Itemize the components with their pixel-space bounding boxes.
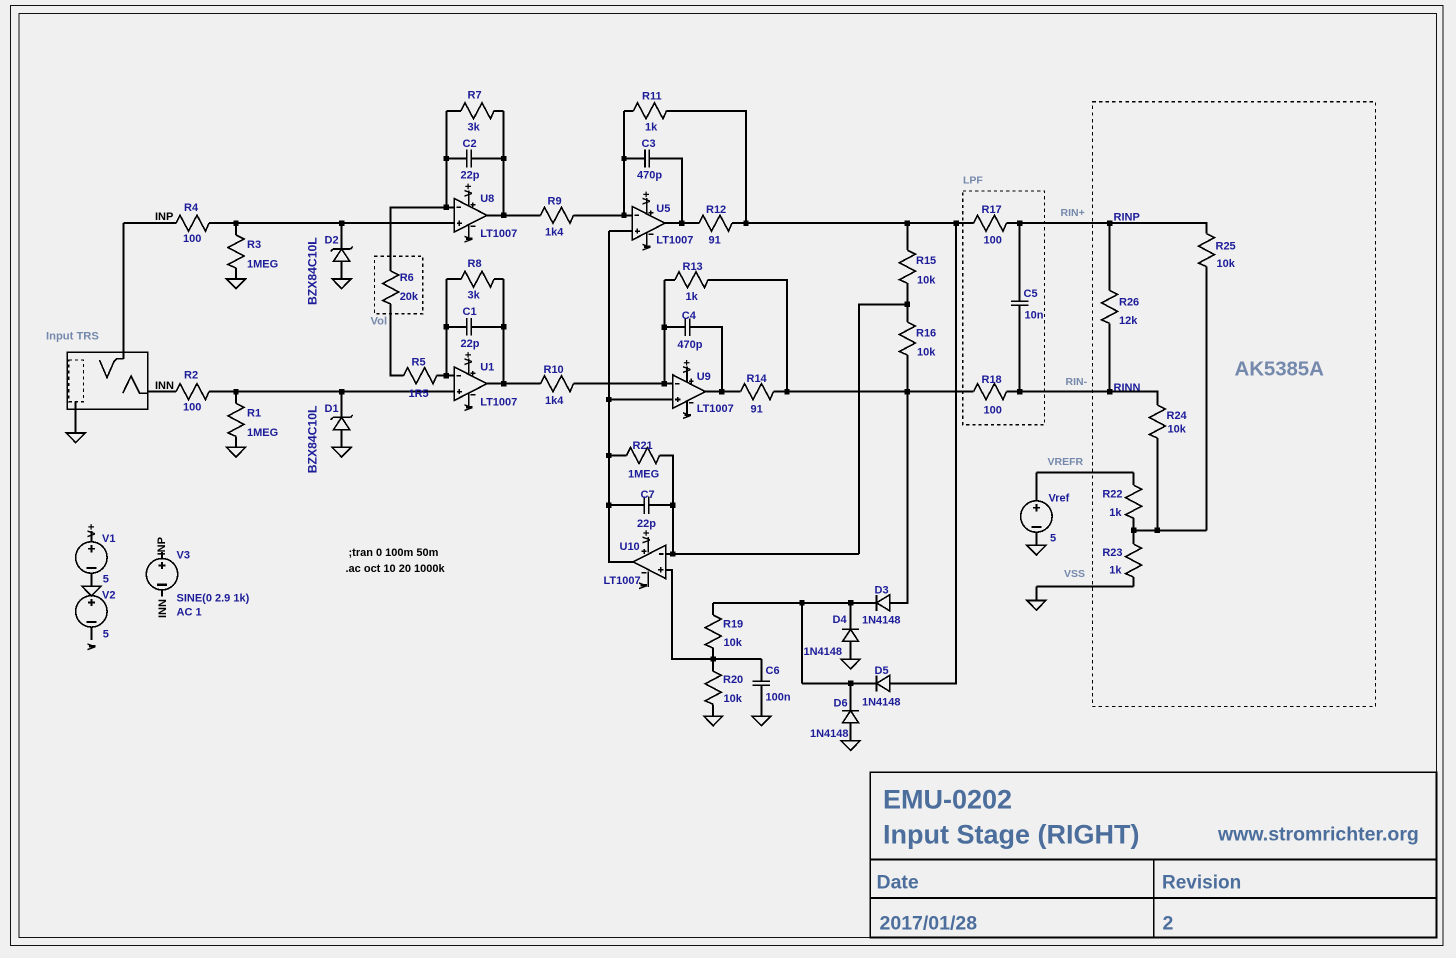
junction R3 node on INP <box>233 221 238 226</box>
resistor R26 <box>1102 290 1118 323</box>
svg-text:VSS: VSS <box>1064 568 1085 580</box>
junction D6 node <box>848 681 853 686</box>
wire C5 bottom lead <box>1019 305 1021 392</box>
capacitor C3 <box>645 150 649 168</box>
wire R22 bottom lead <box>1133 518 1135 544</box>
ground under Vref <box>1027 545 1046 555</box>
svg-text:3k: 3k <box>468 121 481 133</box>
power label V+ (U1) <box>463 352 475 366</box>
wire R8 left lead <box>446 278 461 280</box>
svg-text:Input Stage (RIGHT): Input Stage (RIGHT) <box>883 819 1139 849</box>
svg-text:R17: R17 <box>982 204 1002 216</box>
resistor R19 <box>705 615 721 648</box>
svg-text:10k: 10k <box>917 275 936 287</box>
dashed box LPF <box>963 191 1045 425</box>
svg-text:D2: D2 <box>325 234 339 246</box>
value LT1007 (U1) <box>480 396 517 408</box>
value 10n (C5) <box>1025 310 1044 322</box>
svg-text:RIN-: RIN- <box>1066 376 1088 388</box>
label R25 <box>1216 240 1236 252</box>
junction C7 right <box>670 502 675 507</box>
svg-text:22p: 22p <box>637 518 656 530</box>
wire C6 bottom lead <box>760 685 762 716</box>
label R2 <box>184 370 198 382</box>
label R22 <box>1102 489 1122 501</box>
op-amp U5 LT1007 <box>632 198 665 248</box>
value 5 (V2) <box>103 629 109 641</box>
wire V3 top stub <box>161 552 163 559</box>
op-amp U10 LT1007 <box>633 537 666 587</box>
junction RINP <box>1107 221 1112 226</box>
svg-text:1R5: 1R5 <box>409 388 429 400</box>
label R8 <box>468 258 482 270</box>
op-amp U9 LT1007 <box>673 367 706 417</box>
svg-text:3k: 3k <box>468 290 481 302</box>
wire C3 right lead + rail <box>649 159 682 224</box>
svg-text:10k: 10k <box>1168 423 1187 435</box>
svg-text:D4: D4 <box>833 614 848 626</box>
wire C1 left lead <box>446 326 467 328</box>
resistor R14 <box>741 384 774 400</box>
ground under D4 <box>841 659 860 669</box>
wire tap to C6 <box>713 658 761 660</box>
svg-text:Input TRS: Input TRS <box>46 331 99 343</box>
svg-text:91: 91 <box>709 234 721 246</box>
svg-text:Date: Date <box>877 872 919 894</box>
net label VSS <box>1064 568 1085 580</box>
resistor R10 <box>541 376 574 392</box>
svg-text:AC 1: AC 1 <box>177 606 202 618</box>
svg-text:R16: R16 <box>916 327 936 339</box>
label R9 <box>548 195 562 207</box>
title 2017/01/28 <box>880 912 978 934</box>
svg-text:10k: 10k <box>917 347 936 359</box>
svg-text:R21: R21 <box>633 440 653 452</box>
net label RIN+ <box>1061 207 1085 219</box>
svg-text:22p: 22p <box>461 338 480 350</box>
value 91 (R14) <box>751 404 763 416</box>
svg-text:V+: V+ <box>641 530 653 544</box>
junction divider tap <box>905 302 910 307</box>
value AC 1 (V3) <box>177 606 202 618</box>
svg-text:Vol: Vol <box>371 316 388 328</box>
capacitor C4 <box>685 318 689 336</box>
wire R15 top lead <box>906 223 908 250</box>
connector J1 ring contact <box>123 376 148 393</box>
svg-text:C4: C4 <box>682 310 697 322</box>
wire R11 left lead <box>624 110 634 112</box>
svg-text:1k4: 1k4 <box>545 226 564 238</box>
power label V+ (V1 top) <box>86 524 98 538</box>
svg-text:1MEG: 1MEG <box>628 468 659 480</box>
capacitor C6 <box>753 681 771 685</box>
wire U1 output <box>487 383 541 385</box>
label C7 <box>641 489 655 501</box>
voltage source Vref <box>1021 501 1052 532</box>
wire D1 top lead <box>341 392 343 418</box>
label Vref <box>1049 493 1070 505</box>
value 10k (R16) <box>917 347 936 359</box>
wire U5 feedback left rail <box>623 111 625 216</box>
junction R11 feedback on rail <box>743 221 748 226</box>
label R14 <box>747 373 768 385</box>
value 10k (R24) <box>1168 423 1187 435</box>
net label INN (V3 bottom, rotated) <box>157 599 169 618</box>
wire C6 top lead <box>760 659 762 681</box>
svg-text:5: 5 <box>1050 533 1056 545</box>
wire ref node row <box>1134 529 1207 531</box>
svg-text:1k: 1k <box>686 291 699 303</box>
ground between V1 and V2 <box>82 586 101 596</box>
svg-text:U8: U8 <box>480 193 494 205</box>
junction C2 left <box>444 156 449 161</box>
label U1 <box>480 361 494 373</box>
label R19 <box>723 619 743 631</box>
svg-text:R4: R4 <box>184 202 199 214</box>
svg-text:V2: V2 <box>102 589 115 601</box>
svg-text:1MEG: 1MEG <box>247 427 278 439</box>
wire R13 right to output rail <box>708 280 787 392</box>
wire C7 right lead <box>649 504 673 506</box>
resistor R6 <box>383 271 399 304</box>
resistor R3 <box>228 235 244 268</box>
title Date <box>877 872 919 894</box>
label R12 <box>706 204 726 216</box>
svg-text:AK5385A: AK5385A <box>1235 358 1325 381</box>
ground under jack <box>66 433 85 443</box>
net label INP (V3 top, rotated) <box>156 537 168 555</box>
wire D2 top lead <box>341 223 343 249</box>
svg-text:R1: R1 <box>247 407 261 419</box>
label R20 <box>723 674 743 686</box>
ground under R1 <box>227 447 246 457</box>
label D1 <box>325 403 339 415</box>
junction D1 node on INN <box>339 389 344 394</box>
wire V1 top stub <box>90 531 92 542</box>
value 470p (C3) <box>637 170 662 182</box>
value LT1007 (U9) <box>697 403 734 415</box>
junction U8 output node <box>501 213 506 218</box>
value 22p (C7) <box>637 518 656 530</box>
wire R20 top lead <box>712 659 714 671</box>
svg-text:5: 5 <box>103 573 109 585</box>
wire U8 output <box>487 214 541 216</box>
resistor R25 <box>1199 234 1215 267</box>
svg-text:LT1007: LT1007 <box>604 575 641 587</box>
value 1MEG (R21) <box>628 468 659 480</box>
connector J1 Input TRS jack body <box>67 352 148 409</box>
value LT1007 (U10) <box>604 575 641 587</box>
dashed box AK5385A <box>1092 102 1375 707</box>
resistor R18 <box>974 384 1007 400</box>
svg-text:R11: R11 <box>642 90 662 102</box>
wire D3 to R16 bottom <box>890 392 908 603</box>
net label VREFR <box>1048 456 1084 468</box>
wire U8 - input stub <box>446 206 454 208</box>
value 20k (R6) <box>400 291 419 303</box>
value 1N4148 (D3) <box>862 615 901 627</box>
ground under R3 <box>227 279 246 289</box>
junction C2 right <box>501 156 506 161</box>
wire VREFR rail <box>1036 472 1133 474</box>
power label V+ (U8) <box>463 183 475 197</box>
value 1R5 (R5) <box>409 388 429 400</box>
wire D6 bottom lead <box>850 723 852 741</box>
wire V1 to ground node <box>90 573 92 586</box>
svg-text:INN: INN <box>155 380 174 392</box>
wire D5 to top rail return <box>890 223 956 683</box>
wire R25 bottom to ref node <box>1206 267 1208 531</box>
value 1k (R13) <box>686 291 699 303</box>
net label INP <box>155 211 173 223</box>
svg-text:100n: 100n <box>766 691 791 703</box>
wire U5 output rail <box>665 222 699 224</box>
wire R19 top lead <box>712 603 714 615</box>
svg-text:LPF: LPF <box>963 174 983 186</box>
value 22p (C2) <box>461 170 480 182</box>
label D5 <box>875 665 889 677</box>
svg-text:R2: R2 <box>184 370 198 382</box>
wire R2 to U1 + input <box>209 391 454 393</box>
diode D5 (points left) <box>877 675 890 691</box>
label R18 <box>982 374 1002 386</box>
zener diode D2 <box>331 247 353 262</box>
power label V+ (U10) <box>641 530 653 544</box>
svg-text:R18: R18 <box>982 374 1002 386</box>
value 100n (C6) <box>766 691 791 703</box>
label V3 <box>177 549 190 561</box>
wire R12 to LPF rail <box>732 222 974 224</box>
svg-text:R22: R22 <box>1102 489 1122 501</box>
svg-text:BZX84C10L: BZX84C10L <box>305 237 319 305</box>
label U10 <box>620 541 640 553</box>
svg-text:R7: R7 <box>468 90 482 102</box>
wire R19 bottom lead <box>712 648 714 659</box>
wire R6 bottom to R5 <box>391 304 404 376</box>
wire C7 left lead <box>609 504 645 506</box>
resistor R1 <box>228 403 244 436</box>
value BZX84C10L (D1) <box>305 405 319 473</box>
title Revision <box>1162 873 1241 894</box>
svg-text:C5: C5 <box>1024 288 1038 300</box>
resistor R7 <box>461 103 494 119</box>
label R5 <box>412 357 426 369</box>
svg-text:R6: R6 <box>400 272 414 284</box>
wire INN rail left <box>148 391 176 393</box>
voltage source V1 <box>76 542 107 573</box>
label U5 <box>656 203 670 215</box>
svg-text:100: 100 <box>183 401 201 413</box>
svg-text:R8: R8 <box>468 258 482 270</box>
wire jack sleeve to ground <box>75 402 77 433</box>
label C3 <box>642 138 656 150</box>
label R10 <box>544 364 564 376</box>
label D4 <box>833 614 848 626</box>
ground under R20 <box>704 716 723 726</box>
svg-text:D5: D5 <box>875 665 889 677</box>
junction R15 top node <box>905 221 910 226</box>
svg-text:V+: V+ <box>463 352 475 366</box>
value 1k (R11) <box>645 121 658 133</box>
dashed box around R6 (Vol) <box>374 256 422 314</box>
wire clamp rail D3 row <box>713 602 876 604</box>
svg-text:U1: U1 <box>480 361 494 373</box>
wire U8 feedback right rail <box>503 111 505 216</box>
label R21 <box>633 440 653 452</box>
junction servo to R21 <box>606 453 611 458</box>
power label V- (U9) <box>682 411 694 419</box>
resistor R24 <box>1149 405 1165 438</box>
value BZX84C10L (D2) <box>305 237 319 305</box>
label R24 <box>1167 410 1188 422</box>
value 1k (R22) <box>1109 507 1122 519</box>
wire U9 output rail <box>705 391 740 393</box>
voltage source V2 <box>76 596 107 627</box>
svg-text:RINP: RINP <box>1114 211 1140 223</box>
resistor R22 <box>1126 485 1142 518</box>
wire D2 bottom lead <box>341 261 343 279</box>
svg-text:10k: 10k <box>724 693 743 705</box>
diode D3 (points left) <box>877 595 890 611</box>
svg-text:91: 91 <box>751 404 763 416</box>
junction R13 feedback on rail <box>784 389 789 394</box>
value 12k (R26) <box>1119 315 1138 327</box>
svg-text:C2: C2 <box>463 138 477 150</box>
svg-text:R5: R5 <box>412 357 426 369</box>
wire U1 - input stub <box>446 375 454 377</box>
svg-text:U5: U5 <box>656 203 670 215</box>
svg-text:100: 100 <box>984 404 1002 416</box>
junction ref node R22/R23 <box>1131 528 1136 533</box>
junction servo to U9 + <box>606 397 611 402</box>
svg-text:1MEG: 1MEG <box>247 259 278 271</box>
label R3 <box>247 239 261 251</box>
svg-text:C3: C3 <box>642 138 656 150</box>
svg-text:20k: 20k <box>400 291 419 303</box>
svg-text:R25: R25 <box>1216 240 1236 252</box>
junction U8 - input node <box>444 205 449 210</box>
wire C1 right lead <box>471 326 504 328</box>
svg-text:R13: R13 <box>683 261 703 273</box>
value 10k (R19) <box>724 637 743 649</box>
svg-text:R24: R24 <box>1167 410 1188 422</box>
wire R11 right to output rail <box>667 111 747 223</box>
wire D4 bottom lead <box>850 641 852 659</box>
resistor R17 <box>974 215 1007 231</box>
svg-text:.ac oct 10 20 1000k: .ac oct 10 20 1000k <box>346 563 446 575</box>
wire D5 branch vertical <box>801 603 803 684</box>
connector J1 sleeve (dashed) <box>69 360 84 402</box>
svg-text:R3: R3 <box>247 239 261 251</box>
svg-text:RIN+: RIN+ <box>1061 207 1085 219</box>
value 5 (V1) <box>103 573 109 585</box>
wire R1 top lead <box>235 392 237 404</box>
value 100 (R17) <box>984 235 1002 247</box>
wire C5 top lead <box>1019 223 1021 301</box>
label C4 <box>682 310 697 322</box>
wire R7 left lead <box>446 110 461 112</box>
diode D6 (points up) <box>842 711 859 723</box>
resistor R15 <box>899 250 915 283</box>
wire INP rail left <box>123 222 176 224</box>
wire C4 right lead + rail <box>690 327 722 391</box>
svg-text:C6: C6 <box>766 665 780 677</box>
svg-text:100: 100 <box>183 233 201 245</box>
junction ref node R24 <box>1155 528 1160 533</box>
resistor R9 <box>541 207 574 223</box>
ground under C6 <box>752 716 771 726</box>
value 3k (R7) <box>468 121 481 133</box>
power label V+ (U9) <box>682 360 694 374</box>
junction U9 - input node <box>662 381 667 386</box>
ground under D2 <box>332 279 351 289</box>
wire RINN to R24 <box>1110 392 1158 405</box>
value 1N4148 (D5) <box>862 696 901 708</box>
svg-text:R26: R26 <box>1119 296 1139 308</box>
junction U10 - node <box>670 551 675 556</box>
wire R4 to U8 + input <box>209 222 454 224</box>
resistor R8 <box>461 271 494 287</box>
spice directive ;tran <box>349 547 439 559</box>
label R15 <box>916 255 936 267</box>
value 100 (R18) <box>984 404 1002 416</box>
wire D1 bottom lead <box>341 430 343 448</box>
op-amp U8 LT1007 <box>454 190 487 240</box>
wire U1 feedback left rail <box>445 279 447 376</box>
ground under VSS rail <box>1027 601 1046 611</box>
svg-text:BZX84C10L: BZX84C10L <box>305 405 319 473</box>
spice directive .ac <box>346 563 446 575</box>
junction servo to C7 <box>606 502 611 507</box>
svg-text:R20: R20 <box>723 674 743 686</box>
junction R16 bottom node <box>905 389 910 394</box>
svg-text:R9: R9 <box>548 195 562 207</box>
zener diode D1 <box>331 415 353 430</box>
label AK5385A <box>1235 358 1325 381</box>
capacitor C2 <box>467 150 471 168</box>
junction C5 bottom <box>1017 389 1022 394</box>
svg-text:D3: D3 <box>875 584 889 596</box>
wire R6 top from U8 - node <box>391 207 447 271</box>
wire R8 right lead <box>494 278 504 280</box>
label R11 <box>642 90 662 102</box>
capacitor C5 <box>1011 301 1029 305</box>
label Vol <box>371 316 388 328</box>
value 3k (R8) <box>468 290 481 302</box>
svg-text:Vref: Vref <box>1049 493 1070 505</box>
svg-text:U9: U9 <box>697 371 711 383</box>
wire D4 top lead <box>850 603 852 630</box>
junction U1 - input node <box>444 373 449 378</box>
wire R24 bottom to ref node <box>1156 438 1158 530</box>
wire C2 right lead <box>471 158 504 160</box>
wire R5 to U1 - node <box>437 375 447 377</box>
svg-text:V+: V+ <box>641 191 653 205</box>
label R26 <box>1119 296 1139 308</box>
svg-text:1N4148: 1N4148 <box>862 615 901 627</box>
wire U10 - rail down <box>672 505 674 554</box>
label U8 <box>480 193 494 205</box>
power label V- (V2 bottom) <box>86 643 98 651</box>
wire R7 right lead <box>494 110 504 112</box>
wire VSS to ground <box>1035 587 1037 601</box>
wire D6 top lead <box>850 683 852 710</box>
resistor R23 <box>1126 544 1142 577</box>
svg-text:12k: 12k <box>1119 315 1138 327</box>
resistor R2 <box>176 384 209 400</box>
svg-text:C7: C7 <box>641 489 655 501</box>
wire R3 bottom lead <box>235 268 237 279</box>
